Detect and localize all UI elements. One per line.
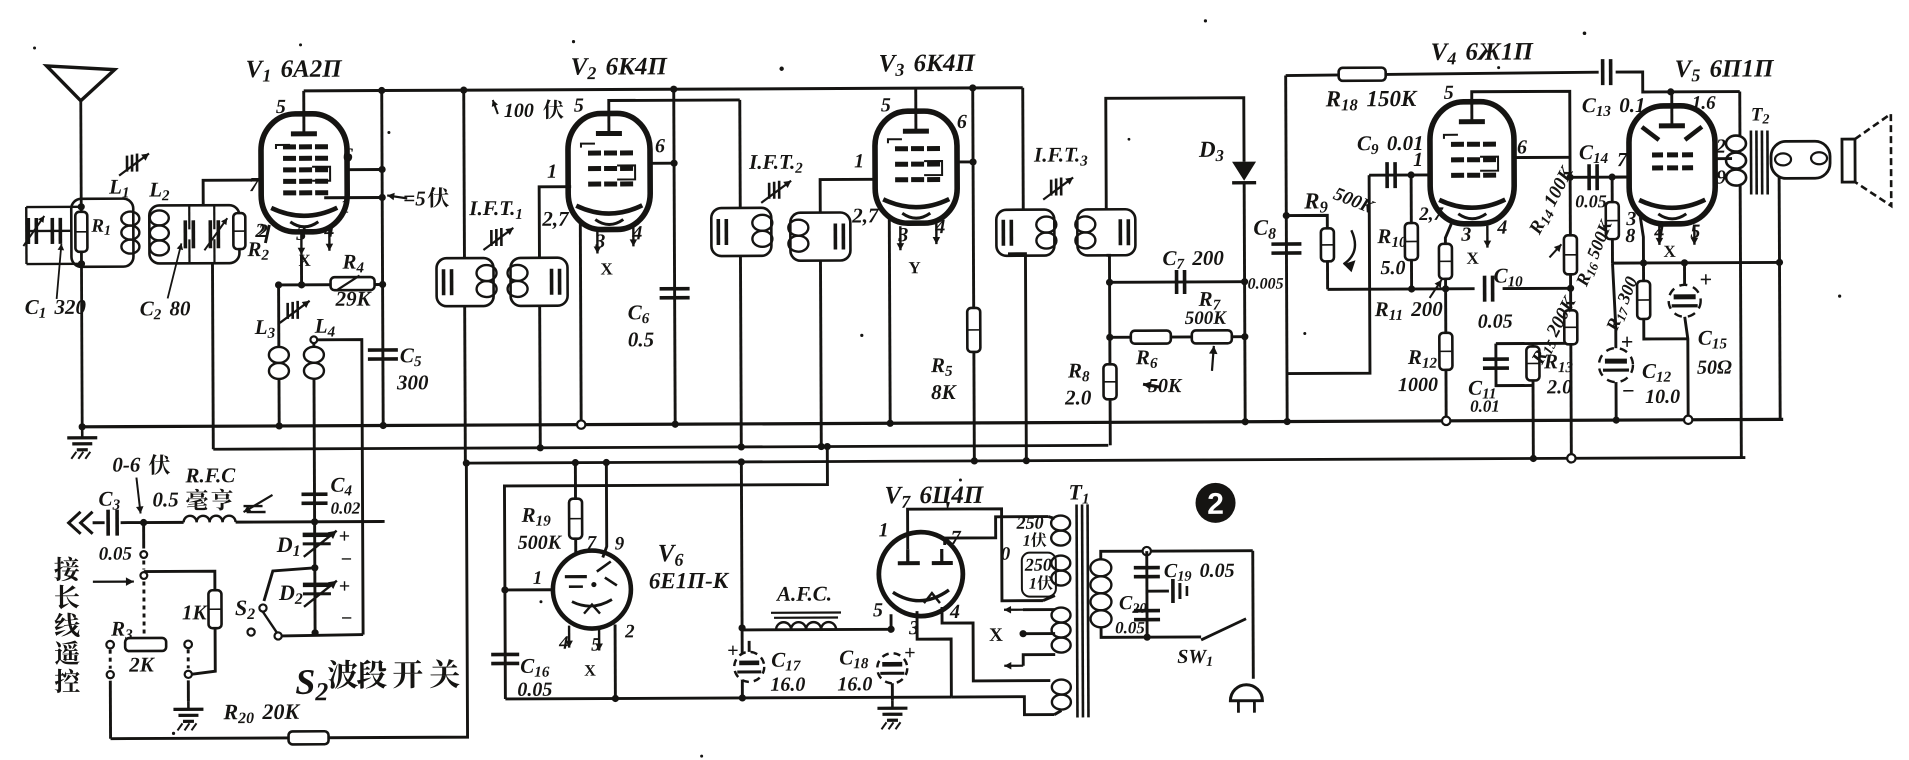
capacitor C17 electrolytic 16.0: [734, 652, 764, 682]
svg-text:V7 6Ц4П: V7 6Ц4П: [884, 482, 985, 512]
svg-text:+: +: [1621, 329, 1634, 354]
wire V3 pin6: [957, 160, 973, 163]
wire V5 cathode pins 3/8: [1640, 217, 1643, 263]
parallel C11 R13: [1496, 342, 1571, 345]
svg-text:C8: C8: [1253, 215, 1276, 243]
wire L2 top to V1 grid pin7: [203, 180, 262, 205]
core symbol L3/L4: [286, 303, 289, 319]
svg-text:Т2: Т2: [1751, 104, 1770, 127]
capacitor C13 0.1: [1601, 59, 1605, 85]
resistor R11: [1445, 224, 1451, 289]
wire V6 box bottom: [505, 697, 951, 699]
T1 winding w3: [1051, 607, 1070, 622]
svg-text:Т1: Т1: [1068, 479, 1089, 507]
wire V6 grid pin1: [505, 588, 553, 591]
ground below R3: [187, 701, 190, 709]
svg-text:50K: 50K: [1148, 375, 1183, 397]
badge 2: [1195, 483, 1235, 523]
resistor R19 500K: [574, 463, 577, 553]
IFT2 secondary box: [790, 212, 850, 260]
svg-text:0.005: 0.005: [1248, 276, 1284, 293]
wire IFT2 secondary bottom to bus2: [819, 261, 823, 447]
resistor R5 8K: [967, 308, 980, 352]
resistor R4 29K: [331, 277, 375, 290]
svg-text:A.F.C.: A.F.C.: [775, 582, 832, 606]
svg-text:X: X: [584, 663, 596, 680]
wire IFT2 secondary top to V3 grid: [820, 179, 873, 212]
wire V5 grid pin7: [1612, 176, 1630, 179]
svg-text:X: X: [600, 259, 613, 278]
pin leads V1 bottom: [300, 232, 303, 255]
IFT2 primary box: [711, 208, 771, 256]
resistor R10 5.0: [1410, 175, 1413, 289]
core symbol IFT1: [490, 230, 493, 246]
heater drop x741: [741, 462, 742, 698]
coil L4: [310, 336, 317, 343]
wire V7 plate1 to HV tap: [908, 509, 1043, 602]
svg-text:R3: R3: [110, 617, 133, 644]
svg-text:X: X: [1466, 249, 1479, 268]
svg-text:1: 1: [1023, 533, 1031, 550]
svg-text:Y: Y: [908, 258, 920, 277]
svg-text:V5 6П1П: V5 6П1П: [1675, 55, 1776, 85]
svg-text:V1 6А2П: V1 6А2П: [246, 56, 344, 86]
pin leads V2 bottom: [596, 232, 598, 254]
svg-text:C17: C17: [771, 648, 802, 675]
varicap D1: [303, 532, 331, 537]
svg-text:C4: C4: [330, 473, 352, 500]
svg-text:3: 3: [1460, 224, 1471, 246]
wire IFT1 secondary bottom to bus2: [538, 306, 542, 448]
svg-text:L2: L2: [148, 177, 170, 204]
tube V2 6K4P: [568, 113, 651, 229]
pin leads V3 bottom: [899, 226, 902, 250]
svg-text:100: 100: [504, 100, 534, 122]
svg-text:7: 7: [587, 533, 598, 554]
svg-text:0.02: 0.02: [331, 499, 361, 518]
wire R6 R7 row: [1110, 335, 1245, 338]
capacitor C10 0.05: [1483, 276, 1487, 302]
svg-text:1: 1: [854, 150, 864, 172]
label 100伏: [493, 100, 498, 114]
capacitor C16 0.05: [491, 653, 519, 657]
T1 secondary w5: [1090, 559, 1111, 576]
wire D2 bottom to L4 drop: [282, 635, 363, 636]
wire AVC riser to C9: [1286, 175, 1370, 373]
pin leads V4 bottom: [1486, 226, 1488, 248]
svg-text:C7 200: C7 200: [1162, 246, 1224, 273]
wire bottom R20 run: [109, 463, 467, 739]
svg-text:+: +: [904, 642, 916, 664]
wire AVC bus (bus2): [213, 445, 1108, 449]
V6 box: [504, 447, 828, 699]
svg-text:S2: S2: [235, 595, 255, 623]
svg-text:8: 8: [1625, 225, 1635, 247]
resistor 1K: [144, 571, 215, 590]
wire IFT3 secondary top to D3: [1106, 98, 1244, 210]
svg-text:1K: 1K: [182, 600, 209, 624]
wire IFT1 primary top to bus: [462, 90, 466, 258]
svg-text:V3 6К4П: V3 6К4П: [879, 50, 977, 80]
svg-text:I.F.T.1: I.F.T.1: [468, 196, 523, 223]
resistor R20 20K: [289, 731, 329, 744]
resistor R16 500K: [1611, 177, 1614, 263]
tube V1 6A2P: [261, 114, 348, 232]
wire V1 cathode row y282: [279, 283, 383, 286]
svg-text:4: 4: [949, 601, 960, 623]
svg-text:C20: C20: [1119, 592, 1147, 617]
svg-text:R4: R4: [341, 250, 364, 277]
svg-text:500K: 500K: [1185, 308, 1228, 329]
capacitor C3 0.05: [93, 521, 105, 524]
pin leads V5 bottom: [1658, 225, 1660, 245]
capacitor C14 0.05: [1570, 176, 1630, 179]
svg-text:0.05: 0.05: [1575, 191, 1607, 211]
capacitor C2: [183, 220, 187, 248]
wire B+ top bus: [304, 88, 1023, 91]
mains plug: [1251, 551, 1254, 679]
svg-text:250: 250: [1024, 555, 1052, 575]
svg-text:C12: C12: [1642, 359, 1672, 386]
T1 winding w2: [1051, 555, 1070, 570]
svg-text:0.05: 0.05: [99, 544, 133, 565]
svg-text:0: 0: [1001, 544, 1011, 565]
svg-text:3: 3: [897, 224, 908, 246]
wire IFT3 primary top from bus corner: [1021, 88, 1024, 210]
capacitor C8 column: [1286, 76, 1288, 422]
capacitor C4 0.02: [301, 492, 327, 496]
svg-text:2,7: 2,7: [541, 207, 570, 231]
svg-text:0.5: 0.5: [152, 487, 178, 511]
svg-text:+: +: [727, 640, 739, 662]
IFT1 secondary box: [510, 258, 567, 306]
wires below R3: [109, 650, 112, 669]
svg-text:6: 6: [957, 111, 967, 133]
svg-text:C18: C18: [839, 645, 869, 672]
svg-text:C15: C15: [1698, 326, 1728, 353]
wire IFT2 primary bottom to bus2: [739, 256, 743, 447]
svg-text:C3: C3: [98, 487, 120, 514]
ground at antenna bus: [81, 430, 84, 438]
svg-text:6: 6: [343, 145, 353, 167]
svg-text:L1: L1: [108, 175, 130, 202]
wire C6 column: [674, 89, 675, 424]
tank L2 box: [149, 205, 239, 263]
svg-text:5: 5: [574, 95, 584, 117]
capacitor C6: [660, 287, 690, 291]
svg-text:C10: C10: [1493, 264, 1523, 291]
svg-text:+: +: [339, 576, 351, 598]
tube V4 6Ж1П: [1430, 102, 1515, 224]
svg-text:9: 9: [615, 533, 625, 554]
resistor R7 500K: [1192, 330, 1232, 343]
svg-text:L3: L3: [254, 315, 276, 342]
coil L2: [150, 210, 169, 225]
capacitor C20 0.05: [1134, 609, 1160, 613]
svg-text:5: 5: [881, 94, 891, 116]
svg-text:2K: 2K: [128, 652, 156, 676]
wire pin9 drop: [602, 463, 606, 558]
wire L2 to bus2: [211, 263, 215, 449]
svg-text:C1 320: C1 320: [25, 295, 87, 322]
svg-text:I.F.T.3: I.F.T.3: [1033, 142, 1088, 169]
varicap D2: [303, 582, 331, 587]
svg-text:I.F.T.2: I.F.T.2: [748, 150, 803, 177]
svg-text:−: −: [341, 608, 353, 630]
svg-text:R6: R6: [1135, 345, 1158, 372]
speaker: [1842, 139, 1855, 182]
svg-text:1: 1: [547, 161, 557, 183]
T1 winding w1: [1051, 515, 1070, 530]
resistor R1: [75, 212, 87, 252]
svg-text:0.5: 0.5: [628, 327, 654, 351]
svg-text:50Ω: 50Ω: [1697, 357, 1732, 379]
wire bottom to w4: [951, 697, 1054, 715]
svg-text:S2: S2: [295, 662, 328, 707]
svg-text:1: 1: [879, 519, 889, 541]
svg-text:6: 6: [655, 135, 665, 157]
diode D3: [1232, 162, 1256, 181]
speaker connector: [1771, 141, 1830, 178]
capacitor C18 electrolytic 16.0: [877, 653, 907, 683]
svg-text:C14: C14: [1579, 140, 1609, 167]
svg-text:C5: C5: [400, 343, 422, 370]
svg-text:D3: D3: [1198, 137, 1224, 165]
wire V2 cathode edge to bus1: [579, 224, 583, 425]
wire V6 pin2 down: [614, 624, 617, 698]
svg-text:500K: 500K: [518, 532, 563, 554]
svg-text:X: X: [1663, 242, 1676, 261]
svg-text:2: 2: [624, 621, 635, 642]
capacitor C15 electrolytic 50: [1683, 263, 1686, 286]
input chevrons: [69, 512, 93, 534]
resistor R12 1000: [1444, 289, 1447, 421]
wire pins 3/8 row to connector pin column: [1779, 177, 1780, 419]
svg-text:1: 1: [1029, 576, 1037, 593]
capacitor C12 electrolytic: [1599, 348, 1633, 382]
svg-text:2.0: 2.0: [1546, 376, 1572, 398]
label -5伏: [387, 195, 407, 198]
svg-text:2,7: 2,7: [851, 203, 880, 227]
svg-text:D2: D2: [278, 580, 303, 608]
svg-text:R12: R12: [1407, 345, 1438, 372]
svg-text:4: 4: [1496, 217, 1507, 239]
resistor R2: [233, 213, 245, 249]
svg-text:9: 9: [1716, 167, 1726, 189]
svg-text:+: +: [339, 526, 351, 548]
wire L4 top to S2 drop: [318, 340, 363, 635]
wire C12 column: [1612, 263, 1616, 420]
svg-text:0-6: 0-6: [112, 453, 141, 477]
svg-text:R.F.C: R.F.C: [184, 463, 236, 487]
wire IFT2 primary top: [738, 100, 741, 208]
wire V1 plate to top bus: [302, 91, 305, 116]
svg-text:5.0: 5.0: [1380, 257, 1405, 279]
core symbol IFT2: [768, 183, 771, 199]
wire D3 down to bus1: [1244, 183, 1245, 422]
wire V2 plate up: [609, 100, 740, 115]
svg-text:6Е1П-К: 6Е1П-К: [649, 568, 730, 593]
svg-text:2: 2: [254, 220, 265, 242]
wire V1 pin1: [324, 196, 382, 199]
svg-text:0.05: 0.05: [1115, 618, 1145, 637]
resistor R6: [1131, 331, 1171, 344]
choke RFC: [144, 521, 184, 524]
svg-text:R11 200: R11 200: [1374, 297, 1444, 324]
svg-text:0.05: 0.05: [1478, 311, 1513, 333]
wire V7 pin4 staircase: [942, 607, 1050, 681]
svg-text:300: 300: [396, 370, 429, 394]
capacitor C19 0.05: [1145, 551, 1148, 637]
output transformer T2 primary: [1738, 92, 1741, 136]
IFT1 primary box: [436, 258, 493, 306]
IFT3 secondary box: [1077, 209, 1135, 255]
svg-text:C16: C16: [520, 654, 550, 681]
capacitor C2 trimmer variable: [208, 220, 212, 248]
pin leads V6 bottom: [568, 626, 570, 648]
tube V6 6Е1П-К: [553, 550, 631, 628]
wire V3 cathode edge to bus1: [888, 218, 892, 423]
svg-text:6: 6: [1517, 136, 1527, 158]
wiper arrow R7: [1212, 346, 1214, 371]
AFC coil: [742, 628, 891, 632]
wire ground bus (bus1): [80, 419, 1783, 426]
svg-text:D1: D1: [276, 532, 301, 560]
wire V2 pin6 to C6 line: [650, 162, 674, 165]
svg-text:C2 80: C2 80: [140, 296, 191, 323]
wire V4 screen pin6: [1512, 156, 1570, 159]
svg-text:2,7: 2,7: [1418, 204, 1444, 225]
IFT3 primary box: [996, 210, 1054, 256]
svg-text:5: 5: [873, 599, 883, 621]
svg-text:R18 150K: R18 150K: [1325, 86, 1418, 115]
svg-text:10.0: 10.0: [1645, 386, 1680, 408]
svg-text:1: 1: [533, 568, 543, 589]
wire B+ to V7 cathode: [887, 626, 894, 633]
wire V3 plate up: [914, 88, 917, 112]
core symbol L1/L2: [126, 156, 129, 172]
svg-text:16.0: 16.0: [837, 673, 872, 695]
scan speckles: [779, 67, 783, 71]
screen feed column x1571: [1570, 177, 1571, 458]
svg-text:8K: 8K: [931, 380, 958, 404]
tube V5 6П1П: [1629, 106, 1716, 224]
svg-text:R9: R9: [1303, 188, 1328, 216]
T1 core: [1075, 504, 1079, 717]
svg-text:2: 2: [1207, 488, 1224, 521]
svg-text:1000: 1000: [1398, 374, 1438, 396]
wire C7 row: [1110, 280, 1245, 283]
svg-text:R1: R1: [90, 216, 111, 239]
svg-text:2.0: 2.0: [1064, 385, 1092, 409]
svg-text:+: +: [1700, 267, 1713, 292]
svg-text:250: 250: [1016, 513, 1044, 533]
svg-text:−: −: [1622, 378, 1635, 403]
svg-text:16.0: 16.0: [770, 674, 805, 696]
svg-text:R20 20K: R20 20K: [222, 699, 300, 727]
wire V1 pin6 to dropper: [347, 168, 382, 171]
svg-text:5: 5: [1444, 82, 1454, 104]
svg-text:V2 6К4П: V2 6К4П: [571, 53, 669, 83]
T1 winding w4: [1052, 679, 1071, 694]
resistor R17 300: [1642, 263, 1645, 281]
capacitor C7 200: [1175, 270, 1179, 294]
svg-text:1: 1: [1413, 149, 1423, 171]
remote control column: [142, 523, 145, 549]
svg-text:C6: C6: [628, 300, 650, 327]
wire V5 pin2 to T2: [1715, 157, 1732, 160]
T2 core: [1750, 131, 1753, 195]
capacitor C1 trimmer: [50, 218, 54, 244]
chassis tick: [1147, 590, 1169, 593]
svg-text:0.01: 0.01: [1470, 397, 1500, 416]
wire V7 pin3 heater staircase: [917, 611, 951, 697]
coil L3: [277, 285, 280, 347]
tube V7 6Ц4П: [879, 532, 963, 616]
capacitor C5 300: [368, 348, 398, 352]
wire V5 plate top: [1670, 92, 1673, 109]
potentiometer R9 500K: [1286, 215, 1327, 228]
wire V7 plate7 to HV top: [945, 517, 1049, 545]
resistor R18 150K: [1286, 72, 1599, 75]
switch S2: [264, 568, 315, 601]
svg-text:R5: R5: [930, 353, 953, 380]
antenna: [47, 66, 115, 101]
svg-text:SW1: SW1: [1177, 646, 1213, 670]
coil L1: [121, 212, 139, 226]
wire IFT3 secondary bottom / R8 column: [1106, 255, 1110, 445]
solder arrow: [243, 495, 272, 512]
wire V4 plate top to C14 column: [1472, 91, 1570, 177]
svg-text:5: 5: [276, 96, 286, 118]
resistor R8 2.0: [1103, 364, 1116, 399]
capacitor C9 0.01: [1369, 173, 1431, 176]
wire IFT3 primary bottom to bus3: [1009, 254, 1026, 461]
wire IFT1 secondary top to V2 grid: [539, 187, 571, 258]
wire V4 cathode row y291: [1328, 287, 1475, 291]
ground below C18: [891, 683, 894, 700]
tank L1 box: [71, 199, 133, 267]
core symbol IFT3: [1050, 180, 1053, 196]
switch SW1: [1201, 619, 1246, 640]
svg-text:X: X: [989, 625, 1003, 646]
svg-text:R10: R10: [1376, 224, 1407, 251]
svg-text:L4: L4: [314, 314, 336, 341]
svg-text:R19: R19: [521, 503, 552, 530]
resistor R15 200K: [1564, 310, 1577, 344]
svg-text:7: 7: [1617, 149, 1628, 171]
svg-text:2: 2: [1715, 136, 1726, 158]
svg-text:R8: R8: [1067, 358, 1090, 385]
svg-text:V4 6Ж1П: V4 6Ж1П: [1431, 38, 1535, 68]
wire vertical x383 top bus to C5 to bus1: [382, 90, 383, 425]
svg-text:V6: V6: [658, 540, 684, 570]
potentiometer R3 2K: [125, 638, 166, 651]
label 接长线遥控 vertical: [54, 557, 79, 582]
svg-text:−: −: [341, 549, 353, 571]
wire heater bus (bus3): [465, 458, 1745, 464]
wire cathode row y266: [1612, 261, 1779, 265]
capacitor C1 variable: [26, 230, 71, 233]
svg-text:=5: =5: [403, 186, 426, 210]
svg-text:29K: 29K: [335, 287, 373, 311]
tube V3 6K4P: [875, 111, 957, 223]
wire IFT1 primary bottom to bus3: [463, 306, 467, 463]
wire R5 column: [973, 88, 975, 461]
resistor R14 100K: [1564, 235, 1577, 274]
svg-text:7: 7: [249, 174, 260, 196]
